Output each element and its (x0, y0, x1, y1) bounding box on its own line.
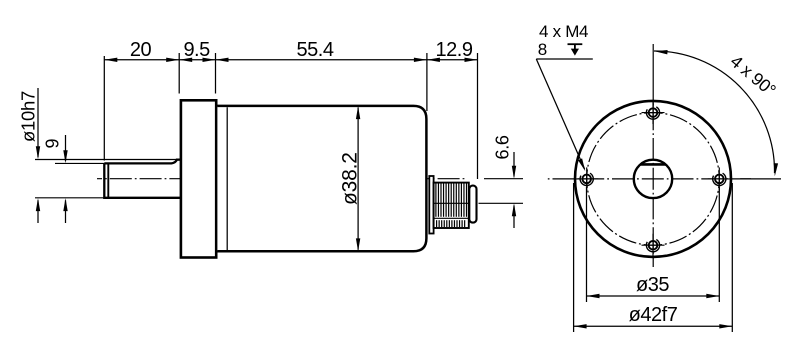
dim line ø10h7 (37, 88, 39, 157)
dim ø42f7 ext lines (573, 183, 575, 332)
connector cap (469, 186, 476, 223)
svg-text:55.4: 55.4 (297, 39, 334, 61)
dim ø35 ext lines (586, 187, 588, 302)
svg-text:12.9: 12.9 (436, 39, 473, 61)
connector thread M12 (434, 183, 469, 228)
arrows dim 20 (104, 58, 117, 62)
dim 6.6 lines (484, 178, 523, 180)
centerline vertical (front view) (652, 44, 654, 108)
svg-text:ø38.2: ø38.2 (339, 152, 362, 205)
bolt circle ø35 (587, 113, 720, 246)
svg-text:6.6: 6.6 (493, 135, 513, 159)
M4 hole bottom (642, 244, 665, 246)
svg-text:ø35: ø35 (636, 274, 669, 296)
svg-text:9.5: 9.5 (183, 39, 210, 61)
dim line ø35 (587, 295, 720, 297)
dim line 9 (65, 135, 67, 161)
M4 hole right (708, 178, 731, 180)
center hole ø10 with flat (634, 160, 672, 198)
M4 hole left (575, 178, 598, 180)
centerline connector axis (434, 202, 469, 204)
svg-text:9: 9 (42, 139, 62, 149)
arrows dim 55.4 (216, 58, 229, 62)
outer circle ø42f7 (575, 101, 731, 257)
flange (synchro flange ø42f7) (181, 100, 216, 257)
extension lines shaft diameter (35, 159, 177, 161)
svg-text:ø42f7: ø42f7 (629, 304, 678, 326)
svg-text:20: 20 (130, 39, 152, 61)
centerline main axis (side view) (97, 178, 464, 180)
arrows dim 12.9 (427, 58, 440, 62)
dim line ø38.2 (357, 108, 359, 250)
centerline horizontal (front view) (548, 178, 751, 180)
angular dim ext line right (740, 178, 781, 180)
angular dim 4 x 90deg arc (654, 51, 775, 173)
depth symbol (568, 43, 583, 45)
svg-text:4 x M4: 4 x M4 (539, 22, 588, 41)
M4 hole top (642, 112, 665, 114)
body (housing ø38.2) (217, 106, 426, 251)
dimension line top (104, 59, 477, 61)
callout leader (536, 58, 593, 60)
shaft (ø10h7 with flat) (104, 160, 180, 198)
svg-text:4 x 90°: 4 x 90° (727, 51, 780, 100)
dim line ø42f7 (574, 325, 733, 327)
svg-text:8: 8 (538, 40, 547, 59)
connector base (429, 176, 433, 234)
dimension extension lines (top chain) (103, 56, 105, 161)
arrows dim 9.5 (179, 58, 192, 62)
svg-text:ø10h7: ø10h7 (18, 91, 39, 142)
